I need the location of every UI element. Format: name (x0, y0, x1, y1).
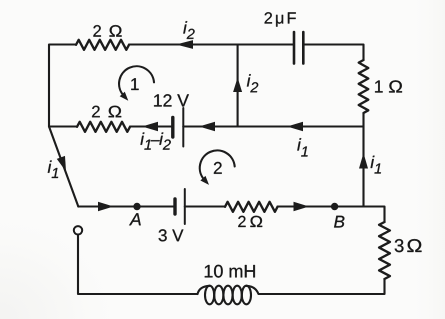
battery B1 12V short plate (171, 118, 174, 138)
resistor R4 2-ohm row3 (225, 202, 278, 212)
label B (node B) (334, 216, 344, 228)
battery B2 3V short plate (173, 199, 176, 214)
label A (node A) (129, 213, 141, 225)
label 2 ohm (R3) (92, 106, 121, 118)
battery B1 12V long plate (182, 108, 184, 147)
label i1-i2 (row2) (141, 133, 171, 150)
label 3 V (B2) (159, 229, 184, 241)
wire top middle segment (129, 43, 294, 45)
resistor R1 2-ohm top (76, 40, 129, 50)
wire top-left corner and left vertical (49, 45, 76, 127)
arrow i1 up on right vertical (359, 153, 368, 169)
label 2uF (C1) (265, 12, 296, 26)
arrow right on row3 before node B (294, 202, 310, 212)
resistor R3 2-ohm row2 (77, 122, 130, 132)
node A dot (133, 203, 140, 210)
wire slanted segment (49, 127, 78, 207)
wire right vertical 1-ohm to row3 (362, 113, 364, 207)
node B dot (331, 203, 338, 210)
label 2 ohm (R1) (93, 25, 121, 36)
wire below 3-ohm and bottom right segment (261, 279, 385, 294)
inductor L1 10mH coil (198, 286, 210, 294)
loop arrow 2 (200, 150, 235, 179)
resistor R5 3-ohm lower right (379, 222, 390, 279)
resistor R2 1-ohm right (359, 60, 369, 113)
label i2 (top) (183, 21, 194, 39)
label i2 (middle) (247, 74, 258, 92)
label 2 ohm (R4) (238, 216, 262, 227)
label 1 (loop 1) (131, 78, 138, 90)
wire top-right segment and corner down to 1-ohm (303, 45, 363, 61)
label 12 V (B1) (154, 94, 189, 106)
wire middle vertical (237, 45, 239, 127)
loop arrow 1 (119, 66, 154, 95)
wire bottom left segment and riser to terminal (78, 235, 198, 294)
wire row3 2-ohm to right corner (278, 207, 385, 223)
arrow right on row3 before node A (98, 202, 114, 212)
label 2 (loop 2) (214, 162, 222, 174)
wire row2 right segment (183, 125, 363, 127)
wire row3 battery to 2-ohm (185, 205, 225, 207)
wire row3 segment to 3V battery (78, 205, 175, 207)
capacitor C1 2uF plates (294, 32, 303, 64)
label i1 (row2 right) (297, 138, 307, 156)
label 10 mH (L1) (205, 265, 255, 278)
arrow i1 left on row2 right (287, 122, 303, 132)
arrow left after 12V battery (199, 122, 215, 132)
label 3 ohm (R5) (395, 239, 422, 252)
arrow i1-i2 left of 12V (142, 122, 158, 132)
arrow i2 up on middle vertical (233, 78, 242, 93)
open terminal circle (74, 226, 82, 234)
arrow i2 left on top wire (176, 40, 193, 49)
wire row2 left segments (49, 125, 173, 127)
label 1 ohm (R2) (375, 80, 402, 92)
label i1 (right vertical) (371, 156, 381, 174)
arrow i1 down-right on slant (57, 156, 66, 172)
label i1 (slant) (48, 161, 58, 179)
battery B2 3V long plate (184, 189, 186, 224)
